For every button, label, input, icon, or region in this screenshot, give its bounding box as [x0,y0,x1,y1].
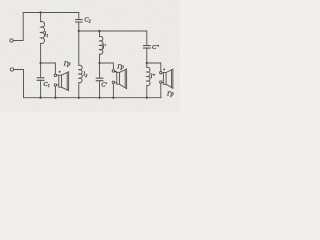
wire L'' bottom lead [146,86,148,98]
wire C' top lead [99,63,101,78]
wire L' bottom lead [99,54,101,63]
svg-text:Гр: Гр [116,64,124,71]
wire C' bottom lead [99,81,101,98]
input terminal bottom [10,68,13,71]
node woofer bottom rail [54,97,56,99]
inductor L2 [79,65,82,82]
node top rail / L1 [40,11,42,13]
loudspeaker Gr2 midrange [112,69,126,89]
capacitor C' [96,78,103,81]
wire L1 bottom lead [40,43,42,63]
svg-text:l1: l1 [44,31,48,38]
wire woofer bottom lead [54,86,56,98]
wire L' top lead [99,31,101,37]
wire junction to mid speaker [100,63,114,70]
input terminal top [10,39,13,42]
node C''/L''/tweeter junction [146,62,148,64]
inductor L' [100,36,103,54]
wire top input to corner [13,13,23,41]
wire C'' bottom lead [146,48,148,63]
capacitor C1 [37,78,44,81]
node mid speaker bottom rail [112,97,114,99]
svg-text:C2: C2 [84,17,91,24]
svg-text:Гр: Гр [166,91,174,98]
node mid rail / L' [98,30,100,32]
wire bottom rail [24,97,161,99]
node C2 / mid rail [78,30,80,32]
svg-text:C″: C″ [152,44,159,51]
loudspeaker Gr1 woofer [54,71,68,91]
wire junction to tweeter [147,63,161,72]
capacitor C'' [143,46,150,49]
wire mid rail [79,30,147,32]
wire C1 top lead [40,63,42,78]
node L'/C'/mid speaker junction [98,62,100,64]
wire junction to woofer [41,63,56,74]
node L2 bottom rail [78,97,80,99]
wire bottom input to corner [14,70,24,98]
svg-text:Гр: Гр [63,61,71,68]
wire L2 top lead [78,31,80,66]
svg-text:C′: C′ [101,81,107,88]
node L'' bottom rail [146,97,148,99]
wire tweeter bottom lead [160,83,162,98]
node L1/C1/woofer junction [40,62,42,64]
inductor L1 [41,22,45,44]
wire C2 bottom lead [78,22,80,31]
loudspeaker Gr3 tweeter [160,69,173,89]
wire mid rail corner to C'' [146,31,148,45]
wire top rail corner to C2 [78,13,80,20]
node C1 bottom rail [40,97,42,99]
node C' bottom rail [98,97,100,99]
wire top rail [23,12,79,14]
wire L'' top lead [146,63,148,68]
inductor L'' [147,67,150,85]
svg-text:C1: C1 [43,81,49,88]
wire mid speaker bottom lead [112,84,114,98]
svg-text:l″: l″ [151,73,156,80]
wire C1 bottom lead [40,80,42,97]
wire L1 top lead [40,13,42,22]
capacitor C2 [76,20,83,23]
wire L2 bottom lead [78,83,80,98]
